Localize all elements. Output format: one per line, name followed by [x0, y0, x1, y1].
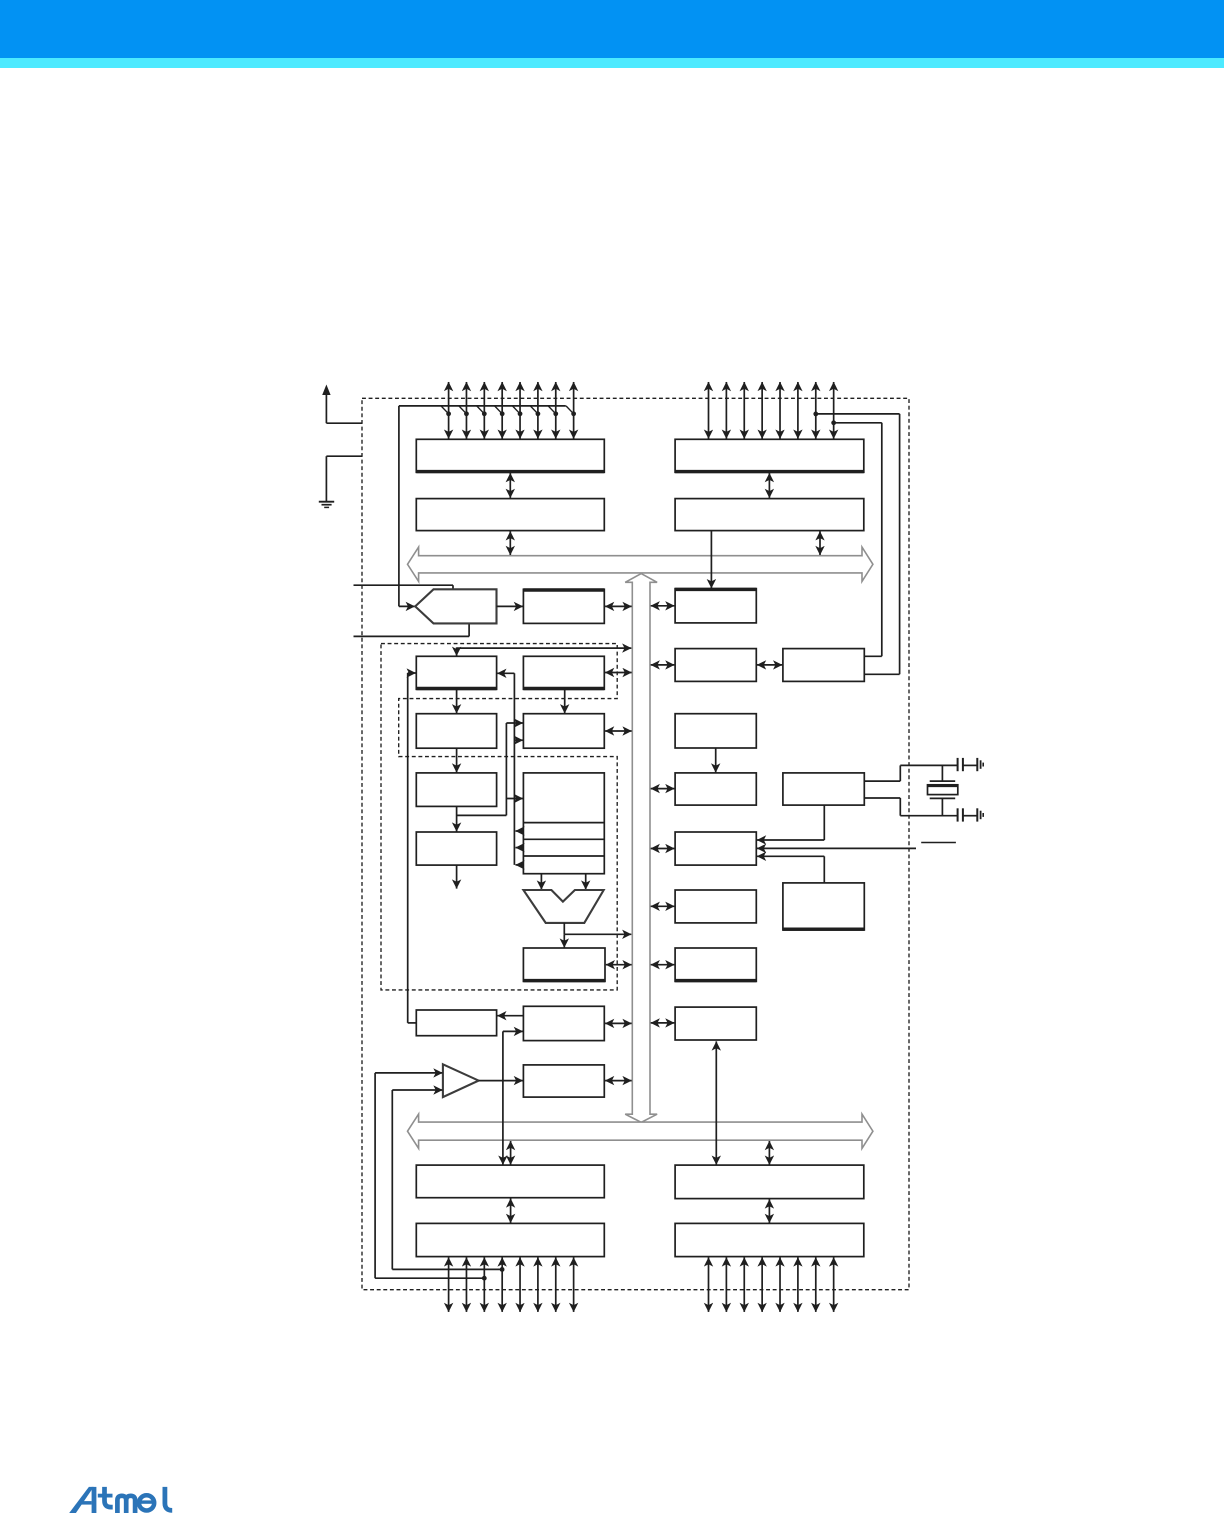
arrow: pointer register rail into program counter [497, 672, 514, 674]
box: TIMERS/COUNTERS [675, 649, 756, 682]
arrow: portB interface <-> data bus [510, 1141, 512, 1165]
capacitor C1 [957, 758, 959, 771]
port A pin PA0 (bidirectional arrow) [448, 382, 450, 439]
box: TWI (2-wire serial interface) [675, 589, 756, 623]
arrow: SRAM <-> data bus [605, 730, 632, 732]
box: PORTD DRIVERS/BUFFERS [675, 1223, 864, 1256]
port A pin PA0 rail tap (diagonal + junction) [441, 406, 449, 414]
port B pin PB3 (bidirectional arrow) [501, 1257, 503, 1312]
arrow: AIN1 into comparator [392, 1089, 442, 1091]
arrow: portB interface <-> drivers [510, 1199, 512, 1223]
wire: TOSC1 (PC6) to timer oscillator [813, 412, 818, 417]
port A pin PA5 rail tap (diagonal + junction) [530, 406, 538, 414]
port C pin PC3 (bidirectional arrow) [761, 382, 763, 439]
wire: RESET pin to MCU ctrl [757, 847, 916, 849]
arrow: port pins to ADC mux [399, 605, 415, 607]
ground (XTAL1 cap) [976, 808, 978, 821]
ALU (V shape) [523, 890, 603, 923]
arrow: programming logic to program counter [408, 672, 416, 674]
wire: AGND/AREF input [354, 635, 470, 637]
port A pin PA3 rail tap (diagonal + junction) [495, 406, 503, 414]
capacitor C2 [957, 808, 959, 821]
arrow: Y register to pointer rail [516, 847, 524, 849]
box: MCU CTRL. & TIMING [675, 832, 756, 865]
data bus upper (8-bit, gray block arrow) [408, 547, 873, 581]
chip boundary (dashed) [362, 398, 909, 1289]
port C pin PC7 (bidirectional arrow) [833, 382, 835, 439]
port A pull-up rail wire [399, 405, 566, 407]
port A pin PA7 rail tap (diagonal + junction) [566, 406, 574, 414]
box: TIMING AND CONTROL / INTERRUPT UNIT [675, 890, 756, 923]
port C pin PC6 (bidirectional arrow) [815, 382, 817, 439]
port A pin PA2 (bidirectional arrow) [483, 382, 485, 439]
arrow: portC interface to TWI [710, 531, 712, 589]
data bus vertical (gray block arrow) [625, 574, 657, 1123]
box: STATUS REGISTER [523, 948, 605, 981]
Atmel logo [69, 1487, 112, 1513]
box: USART [675, 1007, 756, 1040]
box: CONTROL LINES REGISTER [416, 832, 496, 865]
arrow: stack pointer <-> data bus [605, 672, 632, 674]
arrow: internal oscillator to watchdog [715, 748, 717, 773]
port D pin PD4 (bidirectional arrow) [779, 1257, 781, 1312]
arrow: TWI <-> data bus [651, 605, 675, 607]
port B pin PB4 (bidirectional arrow) [519, 1257, 521, 1312]
box: PORTD DIGITAL INTERFACE [675, 1165, 864, 1199]
box: PROGRAM FLASH [416, 714, 496, 749]
port D pin PD2 (bidirectional arrow) [743, 1257, 745, 1312]
box: INTERNAL OSCILLATOR [675, 714, 756, 748]
box: PROGRAMMING LOGIC [416, 1010, 496, 1036]
box: EEPROM [675, 948, 756, 981]
arrow: portD interface <-> drivers [768, 1199, 770, 1223]
arrow: program counter to program flash [456, 689, 458, 713]
wire: XTAL1 net from oscillator [864, 797, 900, 799]
port B pin PB7 (bidirectional arrow) [573, 1257, 575, 1312]
arrow: pointer rail into SRAM (lower) [514, 739, 523, 741]
wire: pointer register rail (vertical) [513, 673, 515, 865]
box: POWER SUPERVISION / BOD [783, 883, 864, 930]
port A pin PA6 rail tap (diagonal + junction) [548, 406, 556, 414]
ADC MUX (pentagon) [415, 589, 496, 623]
wire: SPI to port B interface [503, 1030, 523, 1032]
crystal XTAL [930, 780, 956, 782]
port A pin PA4 rail tap (diagonal + junction) [512, 406, 520, 414]
arrow: registers to ALU (left) [540, 874, 542, 890]
ground (XTAL2 cap) [976, 758, 978, 771]
box: PORTA DRIVERS/BUFFERS [416, 439, 604, 472]
box: PORTB DRIVERS/BUFFERS [416, 1223, 604, 1256]
arrow: portC interface <-> data bus [819, 531, 821, 555]
arrow: MCU ctrl <-> data bus [651, 848, 675, 850]
port C pin PC2 (bidirectional arrow) [743, 382, 745, 439]
data bus lower (8-bit, gray block arrow) [408, 1114, 873, 1148]
box: SRAM / INSTRUCTION REGISTER [523, 714, 604, 749]
port A pin PA7 (bidirectional arrow) [573, 382, 575, 439]
arrow: X register to pointer rail [516, 830, 524, 832]
port C pin PC4 (bidirectional arrow) [779, 382, 781, 439]
wire: oscillator to MCU ctrl [823, 805, 825, 840]
port D pin PD5 (bidirectional arrow) [797, 1257, 799, 1312]
wire: XTAL2 net from oscillator [864, 780, 900, 782]
arrow: ADC <-> data bus [605, 605, 632, 607]
wire: TOSC2 (PC7) to timer oscillator [831, 420, 836, 425]
box: PORTB DIGITAL INTERFACE [416, 1165, 604, 1198]
ground symbol [319, 501, 334, 503]
arrow: Z register to pointer rail [516, 864, 524, 866]
wire: ALU result to status register and bus [563, 923, 565, 934]
arrow: registers to ALU (right) [585, 874, 587, 890]
port A pin PA3 (bidirectional arrow) [501, 382, 503, 439]
box: COMPARATOR INTERFACE [523, 1065, 604, 1097]
port A pin PA2 rail tap (diagonal + junction) [477, 406, 485, 414]
arrow: SPI <-> data bus [605, 1022, 632, 1024]
VCC pin (arrow up) and wire to chip border [325, 392, 327, 423]
analog comparator (triangle) [443, 1064, 479, 1097]
port B pin PB6 (bidirectional arrow) [555, 1257, 557, 1312]
arrow: program flash to instruction decoder [456, 748, 458, 772]
box: GENERAL PURPOSE REGISTERS with X Y Z rows [523, 773, 604, 874]
port C pin PC5 (bidirectional arrow) [797, 382, 799, 439]
arrow: status register <-> data bus [606, 964, 632, 966]
port A pin PA4 (bidirectional arrow) [519, 382, 521, 439]
GND wire from chip border [326, 455, 362, 457]
port D pin PD3 (bidirectional arrow) [761, 1257, 763, 1312]
arrow: mux to ADC [497, 605, 523, 607]
arrow: portA drivers <-> interface [509, 473, 511, 498]
port A pin PA5 (bidirectional arrow) [537, 382, 539, 439]
arrow: SPI to programming logic [497, 1015, 523, 1017]
wire: data bus to program counter [457, 647, 632, 649]
port B pin PB0 (bidirectional arrow) [448, 1257, 450, 1312]
box: INSTRUCTION DECODER [416, 773, 496, 807]
arrow: instruction decoder rail into SRAM (upper) [506, 722, 523, 724]
wire: AVCC input [354, 584, 454, 586]
port B pin PB2 (bidirectional arrow) [483, 1257, 485, 1312]
AVR CPU region boundary (dashed polygon) [381, 644, 617, 990]
port C pin PC0 (bidirectional arrow) [708, 382, 710, 439]
box: TIMER OSCILLATOR [783, 649, 864, 682]
box: PORTC DIGITAL INTERFACE [675, 499, 864, 531]
box: PORTC DRIVERS/BUFFERS [675, 439, 864, 472]
box: ADC [523, 589, 604, 623]
wire: programming logic feedback (left vertical) [407, 673, 409, 1023]
wire: AIN0 from port pin PB2 [374, 1073, 376, 1278]
box: STACK POINTER [523, 656, 604, 689]
box: PORTA DIGITAL INTERFACE [416, 499, 604, 531]
wire: port A rail down to ADC mux [398, 406, 400, 607]
arrow: stack pointer to SRAM [564, 689, 566, 713]
header blue band [0, 0, 1224, 58]
arrow: interrupt unit <-> data bus [651, 905, 675, 907]
arrow: timers <-> timer oscillator [757, 664, 782, 666]
wire: AIN1 from port pin PB3 [391, 1090, 393, 1269]
header cyan stripe [0, 58, 1224, 68]
RESET label overbar [921, 842, 956, 844]
arrow: USART <-> port D interface [715, 1041, 717, 1164]
port D pin PD6 (bidirectional arrow) [815, 1257, 817, 1312]
port A pin PA1 (bidirectional arrow) [465, 382, 467, 439]
arrow: comparator interface <-> data bus [605, 1080, 632, 1082]
port D pin PD1 (bidirectional arrow) [725, 1257, 727, 1312]
arrow: rail into general purpose registers [506, 798, 523, 800]
arrow: AIN0 into comparator [375, 1072, 442, 1074]
wire: decoder output rail [456, 806, 458, 831]
port A pin PA1 rail tap (diagonal + junction) [459, 406, 467, 414]
arrow: portD interface <-> data bus [768, 1141, 770, 1165]
port B pin PB5 (bidirectional arrow) [537, 1257, 539, 1312]
port C pin PC1 (bidirectional arrow) [725, 382, 727, 439]
box: MAIN OSCILLATOR [783, 773, 864, 805]
arrow: timers <-> data bus [651, 664, 675, 666]
port B pin PB1 (bidirectional arrow) [465, 1257, 467, 1312]
port A pin PA6 (bidirectional arrow) [555, 382, 557, 439]
arrow: EEPROM <-> data bus [651, 964, 675, 966]
box: SPI [523, 1006, 604, 1040]
port D pin PD7 (bidirectional arrow) [833, 1257, 835, 1312]
arrow: USART <-> data bus [651, 1022, 675, 1024]
arrow: portA interface <-> data bus [509, 531, 511, 555]
box: WATCHDOG TIMER [675, 773, 756, 805]
port D pin PD0 (bidirectional arrow) [708, 1257, 710, 1312]
arrow: watchdog <-> data bus [651, 788, 675, 790]
wire: brown-out block to MCU ctrl [823, 856, 825, 883]
arrow: portC drivers <-> interface [768, 473, 770, 498]
arrow: comparator output to interface [479, 1080, 523, 1082]
box: PROGRAM COUNTER [416, 656, 496, 689]
arrow: control lines out (down) [456, 865, 458, 889]
Atmel logo e crossbar [139, 1500, 154, 1503]
